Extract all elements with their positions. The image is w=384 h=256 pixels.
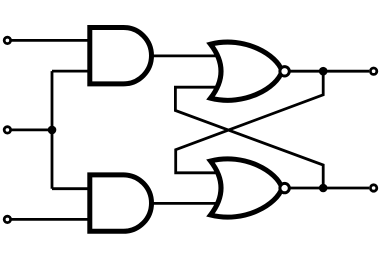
wire E to AND2 upper input (52, 187, 89, 190)
wire AND1 output to NOR1 input1 (150, 55, 218, 58)
junction node Qbar (319, 184, 328, 193)
wire AND2 output to NOR2 input2 (150, 202, 218, 205)
bubble NOR1 output inverter (280, 67, 289, 76)
terminal S input (4, 37, 10, 43)
terminal E input (4, 127, 10, 133)
and-gate U1 (90, 27, 152, 83)
bubble NOR2 output inverter (280, 183, 289, 192)
wire S input to AND1 (11, 39, 89, 42)
terminal Qbar output (370, 185, 376, 191)
nor-gate U4 (211, 159, 290, 217)
nor-gate U3 (211, 42, 290, 100)
wire NOR1 output feedback to NOR2 input1 (176, 73, 324, 173)
terminal Q output (370, 68, 376, 74)
wire NOR2 output feedback to NOR1 input2 (175, 87, 323, 186)
wire NOR1 output to Q terminal (290, 70, 369, 73)
and-gate U2 (90, 175, 152, 231)
wire E vertical bus (51, 71, 54, 189)
terminal R input (4, 216, 10, 222)
wire NOR2 output to Qbar terminal (290, 187, 369, 190)
wire E input (11, 128, 53, 131)
wire E to AND1 lower input (52, 70, 89, 73)
wire R input to AND2 (11, 218, 89, 221)
junction node Q (319, 67, 328, 76)
junction E node (48, 126, 57, 135)
